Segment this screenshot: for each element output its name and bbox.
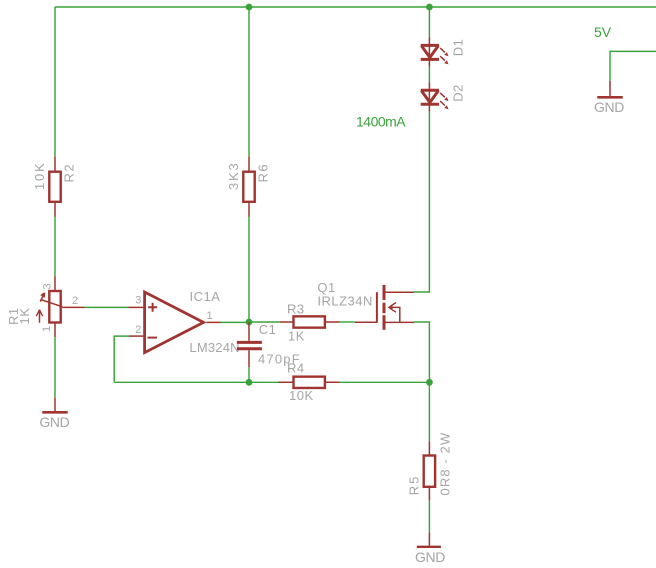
svg-text:GND: GND [415, 549, 445, 565]
wire bottom feedback rail [114, 381, 278, 383]
wire R5 to GND [428, 501, 430, 532]
wire D2 to Q1 drain [414, 111, 429, 292]
wire LED chain upper [428, 7, 430, 37]
svg-text:2: 2 [135, 324, 141, 336]
junction dot top LED [426, 4, 433, 11]
junction node Q1 source [426, 379, 433, 386]
ground symbol top right [594, 81, 624, 115]
svg-text:D2: D2 [450, 84, 465, 102]
wire R6 to output node [248, 217, 250, 322]
wire rail to R6 [248, 7, 250, 157]
wire 5V net [610, 51, 656, 81]
svg-text:IC1A: IC1A [190, 289, 221, 304]
svg-text:GND: GND [39, 414, 69, 430]
svg-text:5V: 5V [594, 24, 612, 40]
wire Q1 source to node [414, 322, 429, 382]
svg-text:C1: C1 [259, 322, 277, 337]
svg-text:1K: 1K [17, 308, 32, 325]
svg-text:R5: R5 [407, 475, 422, 496]
svg-text:R4: R4 [287, 361, 305, 376]
wire C1 bottom to node [248, 367, 250, 382]
LED D1 [421, 37, 466, 66]
junction node C1 bottom [246, 379, 253, 386]
wire node to R5 [428, 382, 430, 441]
wire node to R3 [249, 321, 280, 323]
svg-text:GND: GND [594, 99, 624, 115]
svg-text:3K3: 3K3 [226, 161, 241, 190]
wire R1 to GND [54, 337, 56, 397]
LED D2 [421, 82, 466, 111]
svg-text:10K: 10K [289, 388, 314, 403]
wire op-amp out to node [221, 321, 250, 323]
wire between D1 and D2 [428, 67, 430, 83]
svg-text:2: 2 [72, 295, 78, 307]
capacitor C1 [237, 322, 301, 367]
svg-text:R6: R6 [256, 163, 271, 183]
transistor Q1 [317, 280, 414, 330]
svg-text:R3: R3 [287, 302, 305, 317]
ground symbol bottom [415, 532, 445, 565]
wire R1 wiper to op-amp [85, 306, 129, 308]
wire left drop from rail to R2 [54, 7, 56, 157]
wire R2 to R1 [54, 217, 56, 277]
svg-text:10K: 10K [32, 161, 47, 190]
wire feedback from op-amp pin2 down [114, 336, 129, 382]
svg-text:LM324N: LM324N [189, 340, 239, 355]
wire R3 to Q1 gate [340, 321, 355, 323]
resistor R6 [226, 157, 271, 217]
junction dot top R6 [246, 4, 253, 11]
junction node op-amp output [246, 319, 253, 326]
svg-text:D1: D1 [450, 39, 465, 57]
resistor R4 [279, 361, 340, 404]
op-amp IC1A [129, 289, 240, 355]
resistor R2 [32, 157, 77, 217]
potentiometer R1 [6, 277, 85, 338]
ground symbol left [39, 398, 69, 430]
svg-text:R2: R2 [62, 163, 77, 183]
resistor R3 [280, 302, 340, 344]
wire top rail [55, 6, 656, 8]
svg-text:0R8 - 2W: 0R8 - 2W [438, 432, 453, 496]
svg-text:3: 3 [135, 295, 141, 307]
svg-text:1: 1 [41, 326, 53, 332]
svg-text:IRLZ34N: IRLZ34N [317, 294, 373, 309]
svg-text:3: 3 [42, 283, 54, 289]
resistor R5 [407, 432, 453, 501]
svg-text:1K: 1K [288, 329, 305, 344]
svg-text:1400mA: 1400mA [356, 114, 406, 130]
wire R4 to source node [340, 381, 430, 383]
svg-text:1: 1 [207, 310, 213, 322]
